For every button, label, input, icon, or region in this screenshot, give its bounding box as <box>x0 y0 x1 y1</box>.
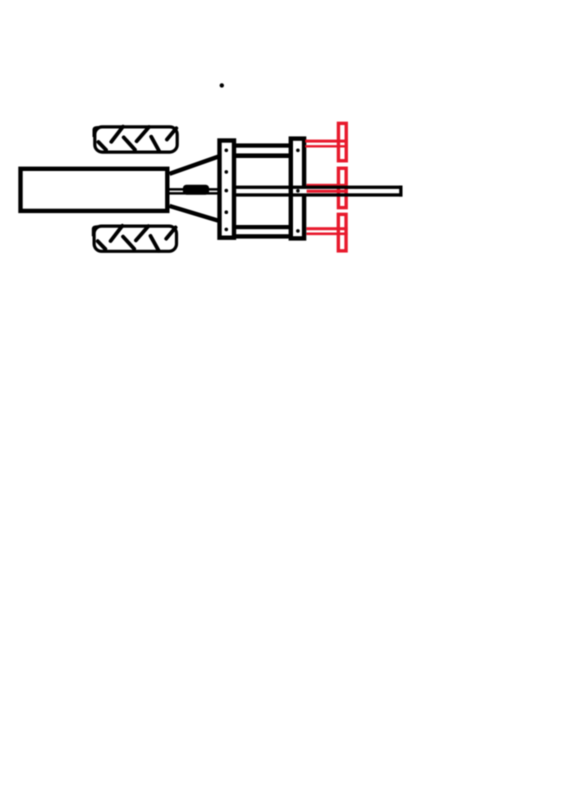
top rail upper line <box>236 143 289 147</box>
shank S1 horizontal lines (red) <box>305 140 347 143</box>
right bar bolt holes <box>296 149 300 233</box>
shank S3 horizontal lines (red) <box>307 227 348 230</box>
shank S3 vertical (red, bottom) <box>338 214 346 251</box>
shank S2 vertical (red, middle) <box>338 168 346 207</box>
drawbar upper line <box>169 188 219 191</box>
tire T2 tread marks <box>98 226 176 251</box>
main beam right end cap <box>399 186 402 197</box>
bottom rail lower line <box>236 234 289 238</box>
main beam bottom edge <box>234 193 403 196</box>
toolbar right vertical bar <box>291 139 304 239</box>
reference dot <box>220 83 224 87</box>
tire T1 tread marks <box>98 127 176 152</box>
hitch upper arm <box>170 156 220 174</box>
coupler block <box>183 185 209 195</box>
beam gap over right bar right edge <box>302 189 307 193</box>
top rail lower line <box>236 153 289 158</box>
hitch lower arm <box>170 206 221 221</box>
tractor body <box>21 169 168 211</box>
rear tire T2 (bottom) <box>92 225 177 251</box>
toolbar left vertical bar <box>220 141 235 238</box>
front tire T1 (top) <box>93 126 178 152</box>
shank S2 horizontal lines (red) <box>307 184 348 187</box>
left bar bolt holes <box>225 149 229 232</box>
drawbar lower line <box>169 192 219 195</box>
bottom rail upper line <box>236 225 289 229</box>
main beam top edge <box>234 186 403 189</box>
shank S1 vertical (red, top) <box>338 123 346 160</box>
